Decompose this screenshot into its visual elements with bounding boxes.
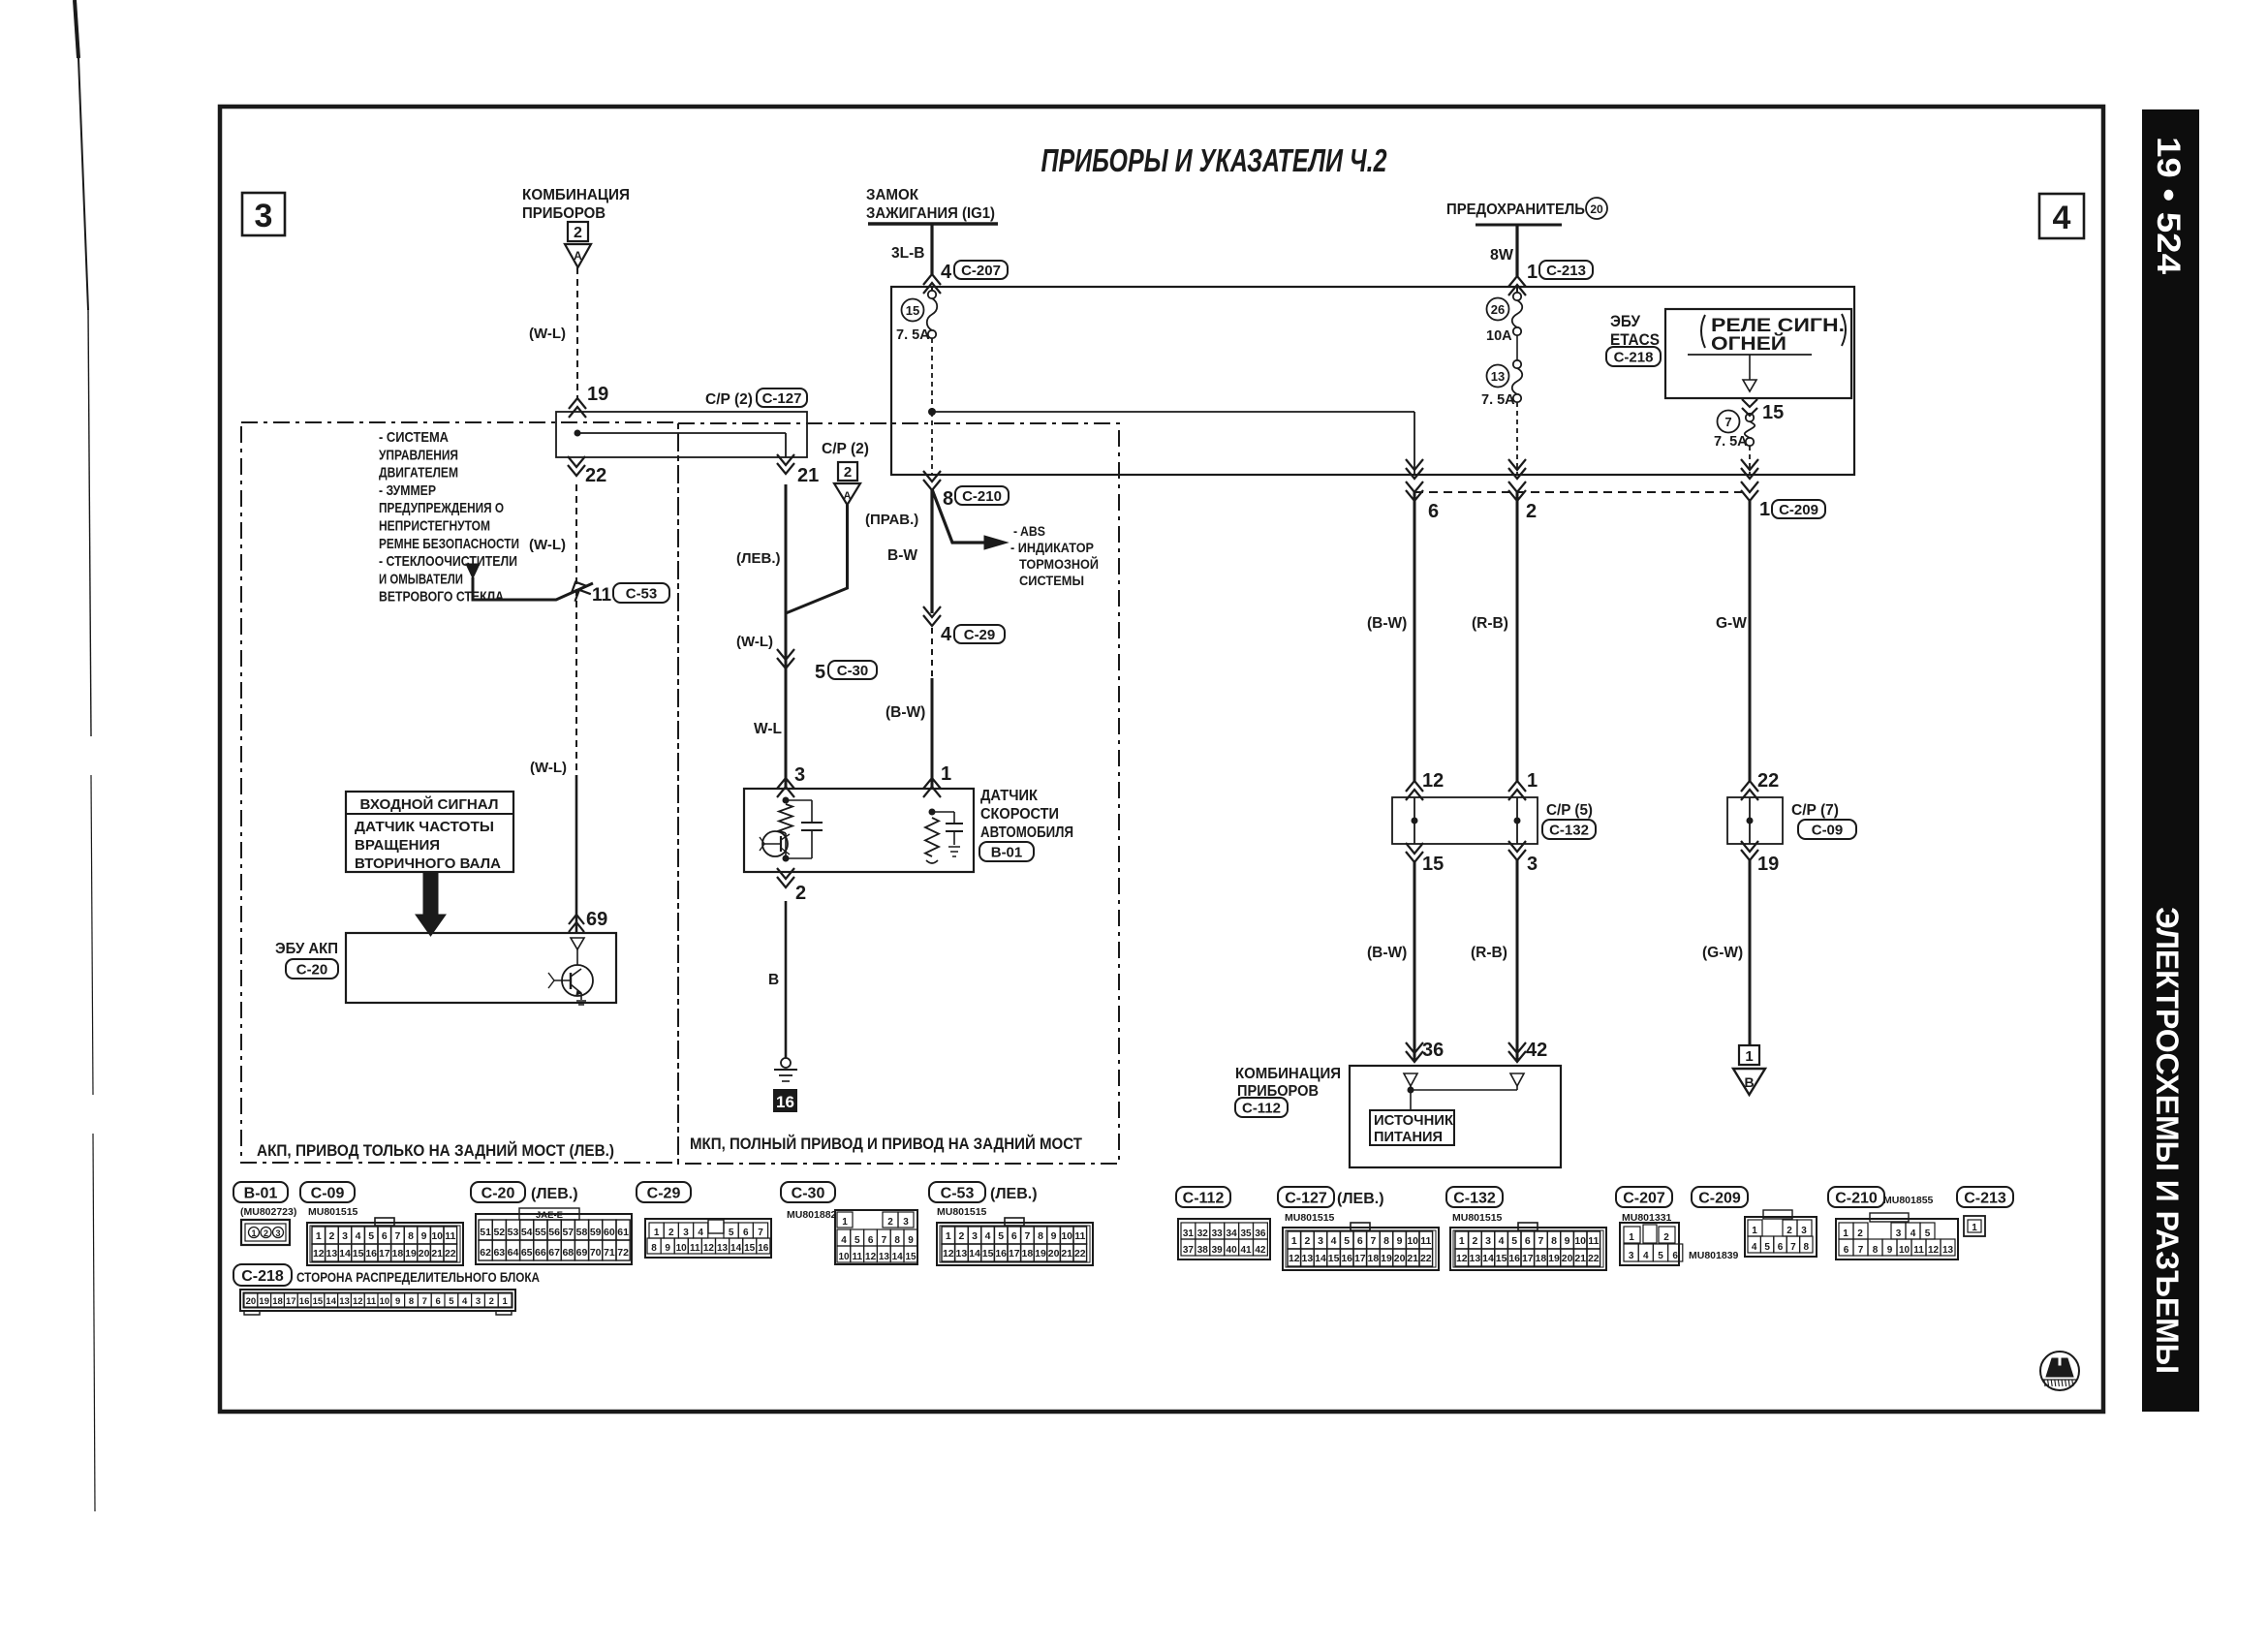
svg-text:(W-L): (W-L) xyxy=(736,634,773,650)
svg-text:A: A xyxy=(844,490,852,502)
svg-text:B-W: B-W xyxy=(887,547,917,564)
svg-text:22: 22 xyxy=(585,465,606,486)
svg-text:67: 67 xyxy=(548,1247,560,1259)
svg-text:(W-L): (W-L) xyxy=(529,326,566,342)
svg-text:12: 12 xyxy=(1456,1253,1468,1264)
svg-text:4: 4 xyxy=(841,1235,847,1246)
chevron pin 1 C-132 xyxy=(1508,781,1526,792)
svg-text:4: 4 xyxy=(462,1296,468,1307)
svg-text:15: 15 xyxy=(1422,854,1444,875)
svg-text:10: 10 xyxy=(1061,1230,1072,1242)
svg-text:3: 3 xyxy=(342,1230,348,1242)
svg-text:57: 57 xyxy=(562,1227,574,1238)
svg-text:15: 15 xyxy=(744,1243,756,1254)
svg-text:2: 2 xyxy=(328,1230,334,1242)
svg-text:C-112: C-112 xyxy=(1242,1100,1281,1116)
svg-text:3: 3 xyxy=(903,1217,909,1228)
svg-text:3: 3 xyxy=(1629,1251,1634,1261)
svg-text:C-209: C-209 xyxy=(1779,502,1818,518)
big black arrow down xyxy=(416,872,446,936)
svg-text:15: 15 xyxy=(313,1296,324,1307)
svg-text:1: 1 xyxy=(654,1228,660,1238)
svg-text:5: 5 xyxy=(1764,1242,1770,1253)
connector pinout C-132 xyxy=(1446,1187,1503,1207)
sensor internals left: resistor, transistor, capacitor xyxy=(783,797,790,804)
connector label C-209 xyxy=(1772,500,1825,518)
svg-text:20: 20 xyxy=(246,1296,257,1307)
svg-text:12: 12 xyxy=(313,1248,325,1259)
svg-text:MU801515: MU801515 xyxy=(308,1206,358,1218)
svg-text:9: 9 xyxy=(1051,1230,1057,1242)
svg-text:(G-W): (G-W) xyxy=(1702,945,1743,961)
svg-text:6: 6 xyxy=(435,1296,440,1307)
svg-text:5: 5 xyxy=(1925,1228,1931,1239)
chevron into B-01 pin 1 xyxy=(923,778,941,789)
chevron pin 2 xyxy=(1508,468,1526,479)
connector pinout C-09 xyxy=(300,1182,355,1202)
svg-text:17: 17 xyxy=(379,1248,390,1259)
connector pinout C-210 xyxy=(1828,1187,1884,1207)
svg-text:11: 11 xyxy=(366,1296,377,1307)
svg-text:УПРАВЛЕНИЯ: УПРАВЛЕНИЯ xyxy=(379,447,458,463)
svg-text:38: 38 xyxy=(1197,1245,1209,1256)
svg-text:6: 6 xyxy=(1525,1235,1531,1247)
fuse 26 element xyxy=(1516,287,1518,293)
connector label C-210 xyxy=(955,486,1009,505)
svg-text:10A: 10A xyxy=(1486,328,1512,344)
chevron below B-01 pin 2 xyxy=(777,877,794,887)
svg-text:ДАТЧИК: ДАТЧИК xyxy=(980,788,1038,804)
svg-text:C-207: C-207 xyxy=(961,263,1001,279)
svg-text:13: 13 xyxy=(326,1248,338,1259)
wire to 8 C-210 xyxy=(931,412,933,475)
svg-text:15: 15 xyxy=(1328,1253,1340,1264)
svg-text:MU801855: MU801855 xyxy=(1883,1195,1934,1206)
svg-text:W-L: W-L xyxy=(754,721,782,737)
svg-text:4: 4 xyxy=(941,624,952,645)
svg-text:1: 1 xyxy=(1459,1235,1465,1247)
svg-text:1: 1 xyxy=(251,1228,256,1238)
chevron pin 15 below xyxy=(1406,852,1423,862)
ground symbol xyxy=(781,1058,791,1068)
svg-text:7. 5A: 7. 5A xyxy=(1481,392,1515,408)
svg-text:C-213: C-213 xyxy=(1546,263,1586,279)
wire (B-W) to pin 36 xyxy=(1414,860,1416,1062)
svg-text:6: 6 xyxy=(743,1228,749,1238)
svg-text:18: 18 xyxy=(1368,1253,1380,1264)
svg-text:НЕПРИСТЕГНУТОМ: НЕПРИСТЕГНУТОМ xyxy=(379,518,490,535)
svg-text:58: 58 xyxy=(576,1227,588,1238)
svg-text:3: 3 xyxy=(794,764,805,786)
svg-text:22: 22 xyxy=(1074,1248,1086,1259)
svg-text:54: 54 xyxy=(521,1227,533,1238)
junction dot ignition feed xyxy=(928,408,936,416)
svg-text:C-09: C-09 xyxy=(1812,822,1844,838)
fuse number circle 7 xyxy=(1718,411,1740,433)
svg-text:12: 12 xyxy=(943,1248,954,1259)
svg-text:3L-B: 3L-B xyxy=(891,245,924,262)
svg-text:9: 9 xyxy=(395,1296,400,1307)
junction dot C-127 xyxy=(575,430,581,437)
svg-text:6: 6 xyxy=(1357,1235,1363,1247)
svg-text:ЭЛЕКТРОСХЕМЫ И РАЗЪЕМЫ: ЭЛЕКТРОСХЕМЫ И РАЗЪЕМЫ xyxy=(2150,907,2185,1374)
connector label C-213 xyxy=(1539,261,1593,279)
svg-text:3: 3 xyxy=(1801,1226,1807,1236)
svg-text:9: 9 xyxy=(1887,1245,1893,1256)
svg-text:13: 13 xyxy=(879,1252,890,1262)
svg-text:C-20: C-20 xyxy=(296,961,328,978)
svg-text:13: 13 xyxy=(956,1248,968,1259)
wire between fuses xyxy=(1516,335,1518,360)
svg-text:40: 40 xyxy=(1227,1245,1238,1256)
wire below fuse dotted xyxy=(931,338,933,412)
wire G-W pin1 down xyxy=(1749,499,1752,781)
svg-text:КОМБИНАЦИЯ: КОМБИНАЦИЯ xyxy=(522,187,630,203)
wire (G-W) to B triangle xyxy=(1749,860,1752,1045)
svg-text:(R-B): (R-B) xyxy=(1472,615,1508,632)
svg-text:13: 13 xyxy=(1942,1245,1954,1256)
svg-text:G-W: G-W xyxy=(1716,615,1747,632)
svg-text:2: 2 xyxy=(1472,1235,1477,1247)
fuse 13 element xyxy=(1513,360,1521,368)
svg-text:6: 6 xyxy=(1778,1242,1784,1253)
connector label C-30 xyxy=(828,661,877,679)
svg-text:8: 8 xyxy=(1551,1235,1557,1247)
wire (R-B) to pin 42 xyxy=(1516,860,1519,1062)
svg-text:A: A xyxy=(574,249,582,263)
svg-text:64: 64 xyxy=(508,1247,519,1259)
speed sensor box B-01 xyxy=(744,789,974,872)
coupler box C-132 xyxy=(1392,797,1538,844)
svg-text:МКП, ПОЛНЫЙ ПРИВОД И ПРИВОД НА: МКП, ПОЛНЫЙ ПРИВОД И ПРИВОД НА ЗАДНИЙ МО… xyxy=(690,1135,1082,1153)
svg-text:13: 13 xyxy=(1491,369,1505,384)
svg-text:- ABS: - ABS xyxy=(1013,523,1045,539)
wire B-W pin6 down xyxy=(1414,492,1416,781)
svg-text:B: B xyxy=(1744,1074,1754,1090)
svg-text:ТОРМОЗНОЙ: ТОРМОЗНОЙ xyxy=(1019,555,1099,572)
svg-text:И ОМЫВАТЕЛИ: И ОМЫВАТЕЛИ xyxy=(379,571,463,587)
svg-text:C-29: C-29 xyxy=(964,627,996,643)
svg-text:8: 8 xyxy=(1804,1242,1810,1253)
svg-text:C-209: C-209 xyxy=(1698,1190,1741,1206)
svg-text:21: 21 xyxy=(1574,1253,1586,1264)
svg-text:ЭБУ АКП: ЭБУ АКП xyxy=(275,941,338,957)
svg-text:8: 8 xyxy=(651,1243,657,1254)
svg-text:7: 7 xyxy=(422,1296,427,1307)
svg-text:19 • 524: 19 • 524 xyxy=(2150,137,2187,274)
svg-text:5: 5 xyxy=(729,1228,734,1238)
svg-text:C/P (7): C/P (7) xyxy=(1791,802,1839,819)
svg-text:C-29: C-29 xyxy=(647,1185,681,1201)
svg-text:(B-W): (B-W) xyxy=(1367,615,1407,632)
svg-text:4: 4 xyxy=(1911,1228,1916,1239)
svg-text:(W-L): (W-L) xyxy=(529,537,566,553)
svg-text:11: 11 xyxy=(592,585,612,606)
svg-text:(ЛЕВ.): (ЛЕВ.) xyxy=(736,550,781,567)
svg-text:ЗАМОК: ЗАМОК xyxy=(866,187,918,203)
wire 21/ПРАВ merged down xyxy=(785,484,788,789)
svg-text:4: 4 xyxy=(356,1230,361,1242)
chevron at pin 11 C-53 xyxy=(568,578,591,602)
wire from triangle A (ПРАВ.) xyxy=(786,505,848,613)
svg-text:9: 9 xyxy=(1565,1235,1570,1247)
svg-text:1: 1 xyxy=(1291,1235,1297,1247)
black triangle pointer xyxy=(466,564,480,578)
wire (B-W) down to B-01 xyxy=(931,628,933,678)
svg-text:10: 10 xyxy=(676,1243,688,1254)
connector pinout C-53 xyxy=(929,1182,985,1202)
connector pinout C-29 xyxy=(637,1182,691,1202)
wire 8W xyxy=(1515,225,1518,276)
open triangle arrowhead inside C-20 xyxy=(571,938,584,949)
chevron pin 5 C-30 xyxy=(777,658,794,669)
svg-text:B: B xyxy=(768,972,779,988)
svg-text:11: 11 xyxy=(853,1252,863,1262)
svg-text:55: 55 xyxy=(535,1227,546,1238)
svg-text:16: 16 xyxy=(1341,1253,1352,1264)
svg-text:62: 62 xyxy=(480,1247,491,1259)
connector label C-207 xyxy=(954,261,1008,279)
svg-text:1: 1 xyxy=(1843,1228,1849,1239)
svg-text:(ПРАВ.): (ПРАВ.) xyxy=(865,512,918,528)
open arrowheads inside C-112 xyxy=(1404,1073,1417,1086)
fuse bus bar xyxy=(1476,224,1562,227)
svg-text:2: 2 xyxy=(668,1228,674,1238)
svg-text:4: 4 xyxy=(1752,1242,1757,1253)
svg-text:52: 52 xyxy=(493,1227,505,1238)
svg-text:35: 35 xyxy=(1240,1228,1252,1239)
svg-text:10: 10 xyxy=(380,1296,390,1307)
svg-text:42: 42 xyxy=(1526,1040,1547,1061)
svg-text:1: 1 xyxy=(1745,1048,1753,1065)
svg-text:53: 53 xyxy=(508,1227,519,1238)
svg-text:1: 1 xyxy=(1527,770,1538,792)
svg-text:РЕМНЕ БЕЗОПАСНОСТИ: РЕМНЕ БЕЗОПАСНОСТИ xyxy=(379,536,519,552)
svg-text:13: 13 xyxy=(1302,1253,1314,1264)
connector pinout C-213 xyxy=(1957,1187,2013,1207)
connector label C-20 xyxy=(286,959,338,979)
svg-text:6: 6 xyxy=(1844,1245,1849,1256)
svg-text:2: 2 xyxy=(1304,1235,1310,1247)
svg-text:9: 9 xyxy=(1397,1235,1403,1247)
svg-text:8: 8 xyxy=(894,1235,900,1246)
svg-text:C-213: C-213 xyxy=(1964,1190,2006,1206)
svg-text:3: 3 xyxy=(1318,1235,1323,1247)
svg-text:2: 2 xyxy=(887,1217,893,1228)
svg-text:- СИСТЕМА: - СИСТЕМА xyxy=(379,429,449,446)
chevron pin 19 below xyxy=(1741,850,1758,860)
chevron pin 3 below xyxy=(1508,850,1526,860)
svg-text:5: 5 xyxy=(998,1230,1004,1242)
svg-text:31: 31 xyxy=(1183,1228,1195,1239)
svg-text:ДАТЧИК ЧАСТОТЫ: ДАТЧИК ЧАСТОТЫ xyxy=(355,819,494,835)
svg-text:15: 15 xyxy=(982,1248,994,1259)
svg-text:1: 1 xyxy=(941,763,951,785)
svg-text:2: 2 xyxy=(574,225,582,241)
publisher logo xyxy=(2040,1352,2079,1390)
wire solid to C-20 xyxy=(575,775,578,933)
svg-text:20: 20 xyxy=(419,1248,430,1259)
svg-text:СТОРОНА РАСПРЕДЕЛИТЕЛЬНОГО БЛО: СТОРОНА РАСПРЕДЕЛИТЕЛЬНОГО БЛОКА xyxy=(296,1269,540,1285)
svg-text:13: 13 xyxy=(1470,1253,1481,1264)
chevron pin 8 C-210 xyxy=(923,480,941,490)
svg-text:17: 17 xyxy=(1009,1248,1020,1259)
wire W-L dashed from cluster xyxy=(576,267,578,399)
svg-text:ПИТАНИЯ: ПИТАНИЯ xyxy=(1374,1129,1443,1145)
svg-text:C-210: C-210 xyxy=(1835,1190,1878,1206)
connector pinout C-127 xyxy=(1278,1187,1334,1207)
svg-text:4: 4 xyxy=(1331,1235,1337,1247)
svg-text:12: 12 xyxy=(353,1296,363,1307)
option region box МКП (dash-dot) xyxy=(678,423,1119,1164)
svg-text:61: 61 xyxy=(617,1227,629,1238)
svg-text:1: 1 xyxy=(946,1230,951,1242)
svg-text:4: 4 xyxy=(2053,200,2071,236)
svg-text:7. 5A: 7. 5A xyxy=(896,327,930,343)
ignition bus bar xyxy=(868,222,998,226)
svg-text:16: 16 xyxy=(1508,1253,1520,1264)
svg-text:(ЛЕВ.): (ЛЕВ.) xyxy=(531,1186,578,1202)
svg-text:13: 13 xyxy=(339,1296,350,1307)
chevron below C-127 pin 22 xyxy=(568,465,585,476)
svg-text:22: 22 xyxy=(1420,1253,1432,1264)
svg-text:19: 19 xyxy=(259,1296,269,1307)
svg-text:15: 15 xyxy=(353,1248,364,1259)
svg-text:1: 1 xyxy=(1759,499,1770,520)
chevron pin 1 C-209 xyxy=(1741,468,1758,479)
chevron into C-127 xyxy=(569,398,586,409)
svg-text:8W: 8W xyxy=(1490,247,1513,264)
svg-text:2: 2 xyxy=(489,1296,494,1307)
svg-text:10: 10 xyxy=(1407,1235,1418,1247)
svg-text:2: 2 xyxy=(1526,501,1537,522)
svg-text:ОГНЕЙ: ОГНЕЙ xyxy=(1711,333,1786,355)
connector label C-09b xyxy=(1798,820,1856,839)
scan fold line left edge xyxy=(75,0,78,58)
svg-text:6: 6 xyxy=(1428,501,1439,522)
svg-text:MU801839: MU801839 xyxy=(1689,1250,1739,1261)
svg-text:ИСТОЧНИК: ИСТОЧНИК xyxy=(1374,1112,1454,1129)
chevron pin 36 xyxy=(1406,1051,1423,1062)
svg-text:8: 8 xyxy=(1873,1245,1879,1256)
svg-text:9: 9 xyxy=(908,1235,914,1246)
svg-text:65: 65 xyxy=(521,1247,533,1259)
transistor inside C-20 xyxy=(576,949,578,965)
svg-text:16: 16 xyxy=(299,1296,310,1307)
svg-text:СКОРОСТИ: СКОРОСТИ xyxy=(980,806,1059,823)
chevron pin 4 C-29 xyxy=(923,615,941,626)
svg-text:3: 3 xyxy=(255,198,273,234)
bus wire inside C-127 xyxy=(577,432,786,434)
svg-text:7: 7 xyxy=(882,1235,887,1246)
svg-text:C/P (2): C/P (2) xyxy=(705,391,753,408)
svg-text:MU801515: MU801515 xyxy=(937,1206,987,1218)
svg-text:12: 12 xyxy=(703,1243,715,1254)
svg-text:13: 13 xyxy=(717,1243,729,1254)
svg-text:7: 7 xyxy=(1024,1230,1030,1242)
connector box C-127 xyxy=(556,412,807,457)
svg-text:C-210: C-210 xyxy=(962,488,1002,505)
svg-text:ВХОДНОЙ СИГНАЛ: ВХОДНОЙ СИГНАЛ xyxy=(360,795,499,813)
svg-text:6: 6 xyxy=(382,1230,388,1242)
wire below fuse 7 dotted xyxy=(1749,446,1751,475)
power source box xyxy=(1370,1110,1454,1145)
svg-text:16: 16 xyxy=(776,1093,794,1111)
svg-text:2: 2 xyxy=(264,1228,268,1238)
svg-text:17: 17 xyxy=(1522,1253,1534,1264)
wire 3L-B from ignition xyxy=(930,224,933,274)
svg-text:ПРЕДУПРЕЖДЕНИЯ О: ПРЕДУПРЕЖДЕНИЯ О xyxy=(379,500,504,516)
svg-text:5: 5 xyxy=(1658,1251,1663,1261)
svg-text:12: 12 xyxy=(1422,770,1444,792)
svg-text:69: 69 xyxy=(576,1247,588,1259)
svg-text:5: 5 xyxy=(854,1235,860,1246)
ECU box C-20 xyxy=(346,933,616,1003)
svg-text:8: 8 xyxy=(943,488,953,510)
branch arrow to ABS note xyxy=(932,489,984,543)
svg-text:18: 18 xyxy=(1536,1253,1547,1264)
svg-text:MU801515: MU801515 xyxy=(1452,1212,1503,1224)
svg-text:- ЗУММЕР: - ЗУММЕР xyxy=(379,482,436,499)
svg-text:56: 56 xyxy=(548,1227,560,1238)
svg-text:26: 26 xyxy=(1491,302,1505,317)
svg-text:19: 19 xyxy=(1757,854,1779,875)
svg-text:РЕЛЕ СИГН.: РЕЛЕ СИГН. xyxy=(1711,316,1845,336)
svg-text:36: 36 xyxy=(1422,1040,1444,1061)
dashed option line xyxy=(1414,491,1750,493)
svg-text:ВЕТРОВОГО СТЕКЛА: ВЕТРОВОГО СТЕКЛА xyxy=(379,589,504,606)
svg-text:18: 18 xyxy=(272,1296,283,1307)
svg-text:C/P (2): C/P (2) xyxy=(822,441,869,457)
svg-text:16: 16 xyxy=(995,1248,1007,1259)
svg-text:10: 10 xyxy=(1899,1245,1911,1256)
svg-text:ПРИБОРОВ: ПРИБОРОВ xyxy=(522,205,606,222)
svg-text:ДВИГАТЕЛЕМ: ДВИГАТЕЛЕМ xyxy=(379,465,458,482)
svg-text:3: 3 xyxy=(1527,854,1538,875)
svg-text:15: 15 xyxy=(1762,402,1784,423)
sensor internals right: resistor, capacitor, ground xyxy=(929,809,936,816)
input signal box xyxy=(346,792,513,872)
wire R-B pin2 down xyxy=(1516,492,1519,781)
svg-text:69: 69 xyxy=(586,909,607,930)
svg-text:60: 60 xyxy=(604,1227,615,1238)
svg-text:19: 19 xyxy=(1548,1253,1560,1264)
svg-text:4: 4 xyxy=(985,1230,991,1242)
svg-text:14: 14 xyxy=(1482,1253,1494,1264)
connector pinout C-207 xyxy=(1616,1187,1672,1207)
svg-text:15: 15 xyxy=(1496,1253,1507,1264)
svg-text:5: 5 xyxy=(1344,1235,1350,1247)
svg-text:4: 4 xyxy=(1643,1251,1649,1261)
relay internal line and arrow xyxy=(1688,354,1812,356)
svg-text:5: 5 xyxy=(449,1296,454,1307)
svg-text:12: 12 xyxy=(1928,1245,1940,1256)
svg-text:66: 66 xyxy=(535,1247,546,1259)
svg-text:(B-W): (B-W) xyxy=(885,704,925,721)
svg-text:- СТЕКЛООЧИСТИТЕЛИ: - СТЕКЛООЧИСТИТЕЛИ xyxy=(379,553,517,570)
svg-text:7: 7 xyxy=(1538,1235,1543,1247)
svg-text:6: 6 xyxy=(1011,1230,1017,1242)
svg-text:39: 39 xyxy=(1212,1245,1224,1256)
connector ref box 2 with triangle A (right) xyxy=(838,462,857,481)
svg-text:2: 2 xyxy=(1663,1232,1669,1243)
connector pinout B-01 xyxy=(233,1182,288,1202)
svg-text:8: 8 xyxy=(1038,1230,1043,1242)
cluster box C-112 xyxy=(1350,1066,1561,1167)
svg-text:(MU802723): (MU802723) xyxy=(240,1206,296,1218)
svg-text:4: 4 xyxy=(1499,1235,1505,1247)
ground ref 16 black box xyxy=(773,1089,797,1112)
